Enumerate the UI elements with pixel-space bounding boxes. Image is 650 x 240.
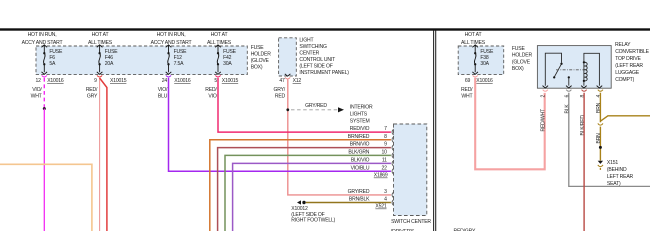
wire BRN/VIO from pin 9 down off page xyxy=(218,148,391,231)
pin 12 label X10016 xyxy=(36,78,64,84)
inline connector cup on BRN xyxy=(598,123,603,125)
relay box convertible top drive xyxy=(537,46,611,89)
wire name labels at block xyxy=(348,126,371,202)
fuse holder box (glove box) right panel xyxy=(458,46,504,75)
svg-text:X1869: X1869 xyxy=(374,173,388,179)
wire VIO solid continuing down off page xyxy=(43,109,45,231)
svg-text:TOP DRIVE: TOP DRIVE xyxy=(615,56,641,62)
svg-text:BOX): BOX) xyxy=(512,66,524,72)
svg-text:9: 9 xyxy=(94,78,97,84)
svg-text:FUSE: FUSE xyxy=(512,46,526,52)
svg-text:X10015: X10015 xyxy=(110,78,127,84)
svg-text:BLK: BLK xyxy=(565,104,571,114)
svg-text:(BEHIND: (BEHIND xyxy=(607,167,627,173)
svg-text:BLK/VIO: BLK/VIO xyxy=(351,158,370,164)
fuse F38 30A symbol xyxy=(472,45,478,74)
arrow to interior lights system xyxy=(338,107,344,112)
svg-text:BLK/RED: BLK/RED xyxy=(580,115,586,136)
svg-text:HOLDER: HOLDER xyxy=(251,52,272,58)
wire BLK/RED from relay pin 8 down off page xyxy=(583,93,585,231)
junction node on BRN xyxy=(599,146,602,149)
wire label RED/GRY xyxy=(86,87,98,100)
svg-text:ALL TIMES: ALL TIMES xyxy=(207,40,232,46)
relay pin connector cups xyxy=(543,90,548,92)
svg-text:BRN: BRN xyxy=(596,133,602,144)
svg-text:3: 3 xyxy=(384,189,387,195)
svg-text:X151: X151 xyxy=(607,160,618,166)
svg-text:(DRIVER'S: (DRIVER'S xyxy=(391,229,415,231)
top frame rule xyxy=(0,28,650,30)
svg-text:BLK/GRN: BLK/GRN xyxy=(348,150,369,156)
label interior lights system xyxy=(350,104,373,124)
svg-text:5A: 5A xyxy=(49,61,56,67)
fuse F42 30A symbol xyxy=(215,45,221,74)
svg-text:X10015: X10015 xyxy=(222,78,239,84)
connector cup pin 12 xyxy=(42,75,47,77)
relay pin arrows at box edge xyxy=(543,86,603,88)
relay coil feed from pin 4 xyxy=(584,53,600,85)
svg-text:X10016: X10016 xyxy=(174,78,191,84)
svg-text:GRY/: GRY/ xyxy=(273,87,285,93)
wire label RED/VIO xyxy=(205,87,217,100)
svg-text:6: 6 xyxy=(565,95,571,98)
svg-text:8: 8 xyxy=(580,95,586,98)
svg-text:HOT AT: HOT AT xyxy=(92,32,109,38)
wire RED branch split down off page xyxy=(100,78,107,231)
svg-text:WHT: WHT xyxy=(31,94,42,100)
svg-text:GRY: GRY xyxy=(87,94,98,100)
wire BLK/VIO from pin 11 down off page xyxy=(233,163,391,231)
svg-text:RED/: RED/ xyxy=(461,87,473,93)
svg-text:7: 7 xyxy=(384,126,387,132)
svg-text:RED/WHT: RED/WHT xyxy=(541,109,547,131)
svg-text:BLU: BLU xyxy=(158,94,168,100)
svg-text:SWITCH CENTER: SWITCH CENTER xyxy=(391,219,431,225)
svg-text:SYSTEM: SYSTEM xyxy=(350,118,370,124)
fuse holder box (glove box) left panel xyxy=(36,46,247,75)
wire RED/VIO from fuse F42 to pin 7 xyxy=(218,78,391,132)
svg-text:(GLOVE: (GLOVE xyxy=(512,59,531,65)
svg-text:RED/: RED/ xyxy=(86,87,98,93)
svg-text:30A: 30A xyxy=(223,61,232,67)
svg-text:HOLDER: HOLDER xyxy=(512,53,533,59)
svg-text:RELAY: RELAY xyxy=(615,42,631,48)
svg-text:69: 69 xyxy=(465,78,471,84)
relay switch blade xyxy=(554,64,561,77)
svg-text:8: 8 xyxy=(384,134,387,140)
svg-text:BRN/BLK: BRN/BLK xyxy=(349,197,370,203)
label fuse holder left xyxy=(251,45,272,70)
wire BLK from relay pin 6 to right edge xyxy=(569,93,650,187)
pin 69 label X10016 xyxy=(465,78,493,84)
svg-text:X10016: X10016 xyxy=(47,78,64,84)
svg-text:INTERIOR: INTERIOR xyxy=(350,104,373,110)
wire label VIO/BLU xyxy=(158,87,168,100)
svg-text:CENTER: CENTER xyxy=(299,50,319,56)
relay contact from pin 2 xyxy=(545,53,561,85)
svg-text:ACCY AND START: ACCY AND START xyxy=(151,40,192,46)
svg-text:X12: X12 xyxy=(293,78,302,84)
svg-text:24: 24 xyxy=(162,78,168,84)
panel divider double line xyxy=(434,31,436,232)
svg-text:47: 47 xyxy=(279,78,285,84)
svg-text:12: 12 xyxy=(36,78,42,84)
svg-text:HOT IN RUN,: HOT IN RUN, xyxy=(28,32,57,38)
svg-text:CONTROL UNIT: CONTROL UNIT xyxy=(299,57,335,63)
wire BRN continues to X151 xyxy=(599,127,601,161)
fuse F6 5A symbol xyxy=(42,45,48,74)
svg-text:SEAT): SEAT) xyxy=(607,181,621,187)
svg-text:22: 22 xyxy=(382,165,388,171)
svg-text:HOT AT: HOT AT xyxy=(211,32,228,38)
pin 5 label X10015 xyxy=(214,78,238,84)
pin numbers at block xyxy=(382,126,388,202)
svg-text:WHT: WHT xyxy=(461,94,472,100)
pin 24 label X10016 xyxy=(162,78,191,84)
node: HOT AT ALL TIMES header fuse F38 xyxy=(461,32,486,46)
light switching center control unit box xyxy=(279,38,297,76)
svg-text:VIO/: VIO/ xyxy=(32,87,42,93)
svg-text:FUSE: FUSE xyxy=(251,45,265,51)
label X151 location xyxy=(607,160,634,187)
connector cup pin 69 xyxy=(473,75,478,77)
svg-text:7.5A: 7.5A xyxy=(174,61,184,67)
svg-text:RED/VIO: RED/VIO xyxy=(350,126,370,132)
wire BRN/BLK from X10012 to pin 4 xyxy=(306,202,391,204)
svg-text:LIGHTS: LIGHTS xyxy=(350,111,368,117)
svg-text:CONVERTIBLE: CONVERTIBLE xyxy=(615,49,649,55)
svg-text:ALL TIMES: ALL TIMES xyxy=(461,40,486,46)
svg-text:30A: 30A xyxy=(480,61,489,67)
wire tan from left edge turning down off page xyxy=(0,164,92,231)
connector X10012 symbol xyxy=(297,200,301,204)
svg-text:LIGHT: LIGHT xyxy=(299,37,313,43)
connector cup pin 24 xyxy=(166,75,171,77)
svg-text:(LEFT SIDE OF: (LEFT SIDE OF xyxy=(299,63,332,69)
svg-text:LUGGAGE: LUGGAGE xyxy=(615,70,640,76)
svg-text:SWITCHING: SWITCHING xyxy=(299,44,327,50)
pin 9 label X10015 xyxy=(94,78,127,84)
svg-text:X521: X521 xyxy=(375,204,386,210)
wire VIO/BLU from fuse F12 to pin 22 xyxy=(169,78,391,172)
svg-text:RED: RED xyxy=(275,94,286,100)
svg-text:BRN/RED: BRN/RED xyxy=(348,134,370,140)
svg-text:10: 10 xyxy=(382,150,388,156)
wire label GRY/RED xyxy=(273,87,285,100)
dashed branch GRY/RED to interior lights system xyxy=(291,109,338,111)
svg-text:X10016: X10016 xyxy=(476,78,493,84)
connector X151 arrow and cup xyxy=(598,161,603,164)
svg-text:11: 11 xyxy=(382,158,387,164)
connector cup pin 9 xyxy=(97,75,102,77)
fuse F12 7.5A symbol xyxy=(166,45,172,74)
connector cup pin 5 xyxy=(215,75,220,77)
relay fixed contact pin 6 xyxy=(568,79,570,86)
svg-text:GRY/RED: GRY/RED xyxy=(348,189,370,195)
svg-text:LEFT REAR: LEFT REAR xyxy=(607,174,634,180)
label relay convertible top drive xyxy=(615,42,650,83)
wire RED/GRY main branch down off page xyxy=(99,78,101,231)
label light switching center xyxy=(299,37,349,76)
fuse F46 20A symbol xyxy=(97,45,103,74)
svg-text:ACCY AND START: ACCY AND START xyxy=(22,40,63,46)
svg-text:RED/GRY: RED/GRY xyxy=(454,229,477,231)
junction node on GRY/RED xyxy=(286,108,289,111)
svg-text:VIO/: VIO/ xyxy=(158,87,168,93)
relay coil xyxy=(584,62,587,85)
svg-text:2: 2 xyxy=(541,95,547,98)
svg-text:COMPT): COMPT) xyxy=(615,77,634,83)
wire BLK/GRN from pin 10 down off page xyxy=(225,155,391,231)
svg-text:BRN/VIO: BRN/VIO xyxy=(350,142,370,148)
label fuse holder right xyxy=(512,46,533,72)
svg-text:BOX): BOX) xyxy=(251,64,263,70)
svg-text:(LEFT REAR: (LEFT REAR xyxy=(615,63,643,69)
svg-text:5: 5 xyxy=(214,78,217,84)
wire label VIO/WHT xyxy=(31,87,43,100)
svg-text:(GLOVE: (GLOVE xyxy=(251,58,270,64)
svg-text:20A: 20A xyxy=(105,61,114,67)
svg-text:VIO/BLU: VIO/BLU xyxy=(351,165,370,171)
node: HOT AT ALL TIMES header fuse F46 xyxy=(88,32,113,46)
svg-text:4: 4 xyxy=(384,197,387,203)
wire label RED/WHT xyxy=(461,87,473,100)
connector X12 pin 47 arrow and cup xyxy=(285,74,291,76)
junction node on VIO/WHT xyxy=(43,107,46,110)
node: HOT IN RUN header fuse F12 xyxy=(151,32,192,46)
relay actuation dash-dot link xyxy=(556,69,584,71)
svg-text:9: 9 xyxy=(384,142,387,148)
svg-text:VIO: VIO xyxy=(208,94,216,100)
svg-text:HOT AT: HOT AT xyxy=(465,32,482,38)
wire BRN/RED from pin 8 down off page xyxy=(210,140,391,231)
svg-text:ALL TIMES: ALL TIMES xyxy=(88,40,113,46)
svg-text:RED/: RED/ xyxy=(205,87,217,93)
svg-text:RIGHT FOOTWELL): RIGHT FOOTWELL) xyxy=(291,217,335,223)
wire BRN from relay pin 4 xyxy=(599,93,601,123)
node: HOT IN RUN header fuse F6 xyxy=(22,32,63,46)
svg-text:INSTRUMENT PANEL): INSTRUMENT PANEL) xyxy=(299,70,349,76)
wire GRY/RED from X12 down then right to X521 pin 3 xyxy=(288,80,391,195)
svg-text:HOT IN RUN,: HOT IN RUN, xyxy=(157,32,186,38)
wire BRN branch to right edge xyxy=(600,116,650,121)
wire VIO/WHT dashed from fuse F6 xyxy=(43,78,45,109)
pin entry arcs on block xyxy=(392,129,394,205)
label X10012 location xyxy=(291,206,335,223)
wire RED/WHT from fuse F38 to relay pin 2 xyxy=(475,78,545,170)
svg-text:GRY/RED: GRY/RED xyxy=(305,103,327,109)
switch center connector block X1869 X521 xyxy=(394,124,427,216)
node: HOT AT ALL TIMES header fuse F42 xyxy=(207,32,232,46)
